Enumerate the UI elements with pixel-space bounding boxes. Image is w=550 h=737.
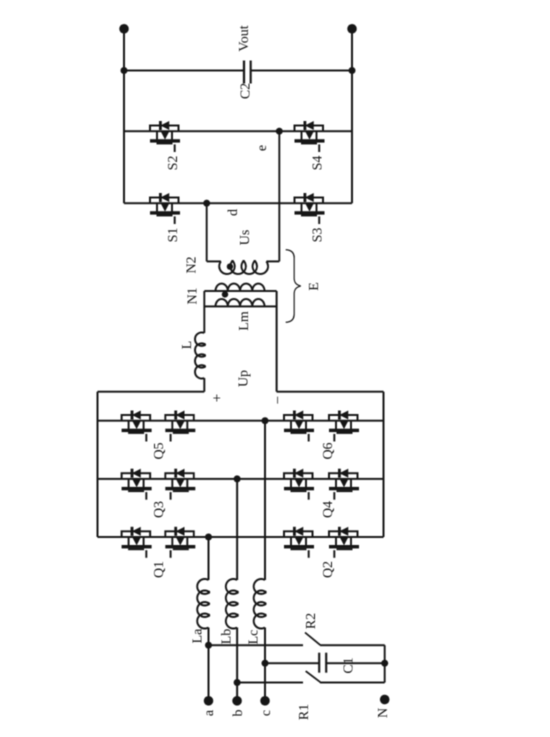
- svg-text:Us: Us: [238, 230, 253, 246]
- svg-text:Vout: Vout: [237, 25, 252, 51]
- svg-text:e: e: [255, 145, 270, 151]
- svg-text:Q4: Q4: [321, 501, 336, 518]
- svg-text:Lm: Lm: [237, 311, 252, 331]
- svg-text:C1: C1: [341, 657, 356, 673]
- svg-text:Q3: Q3: [152, 501, 167, 518]
- svg-text:Up: Up: [236, 370, 251, 387]
- svg-text:−: −: [271, 396, 287, 404]
- svg-text:Q2: Q2: [321, 561, 336, 578]
- svg-text:Q5: Q5: [152, 442, 167, 459]
- svg-text:N: N: [376, 708, 391, 718]
- svg-text:La: La: [190, 628, 205, 644]
- svg-text:S3: S3: [310, 228, 325, 243]
- svg-text:N1: N1: [186, 287, 201, 304]
- svg-text:a: a: [202, 709, 217, 716]
- svg-text:c: c: [259, 710, 274, 716]
- svg-text:L: L: [180, 341, 195, 350]
- svg-text:b: b: [231, 710, 246, 717]
- svg-text:S2: S2: [166, 156, 181, 171]
- svg-text:R1: R1: [297, 704, 312, 720]
- svg-text:+: +: [209, 394, 225, 402]
- svg-text:d: d: [226, 209, 241, 216]
- svg-text:Lc: Lc: [246, 630, 261, 645]
- svg-text:Q1: Q1: [152, 561, 167, 578]
- svg-text:R2: R2: [304, 613, 319, 629]
- svg-text:Q6: Q6: [321, 442, 336, 459]
- svg-text:Lb: Lb: [219, 629, 234, 645]
- svg-text:S1: S1: [166, 228, 181, 243]
- svg-text:S4: S4: [310, 156, 325, 171]
- svg-text:C2: C2: [238, 83, 253, 99]
- svg-text:N2: N2: [184, 256, 199, 273]
- svg-text:E: E: [307, 282, 322, 291]
